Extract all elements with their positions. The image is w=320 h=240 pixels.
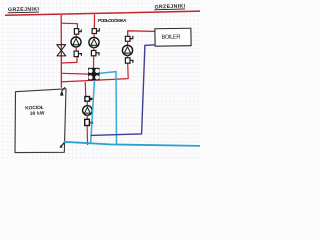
wire: main red supply line (top) bbox=[5, 11, 200, 15]
boiler box U1 bbox=[155, 28, 191, 46]
label GRZEJNIKI (right) bbox=[154, 3, 185, 10]
pump P1: circulation pump bbox=[71, 37, 81, 47]
pump P2: circulation pump bbox=[89, 37, 99, 47]
kociol pump column: ball valve bottom (square with knob) bbox=[85, 119, 94, 125]
kociol pump column: wire down to return bbox=[86, 126, 89, 145]
svg-text:PODŁOGÓWKA: PODŁOGÓWKA bbox=[98, 16, 127, 23]
node: supply connection tick at kociol top-right corner bbox=[60, 90, 64, 96]
pump column 2: ball valve bottom bbox=[91, 51, 99, 56]
pump P4: kociol circulation pump bbox=[83, 106, 93, 116]
wire: cyan from 4-way valve bottom port down bbox=[91, 80, 95, 143]
boiler pump column: wire bbox=[127, 41, 129, 45]
kociol pump column: wire bbox=[86, 115, 88, 119]
wire: branch to 4-way valve left port bbox=[61, 72, 88, 75]
label GRZEJNIKI (left) bbox=[8, 7, 40, 14]
pump P3: boiler circulation pump bbox=[122, 45, 132, 55]
wire: pump column 2 to 4-way valve bbox=[93, 56, 95, 69]
kociol box (KOCIOL 30 kW) bbox=[15, 89, 66, 153]
pump column 1: ball valve top bbox=[74, 29, 81, 35]
svg-text:BOILER: BOILER bbox=[161, 34, 180, 40]
node: return connection tick at kociol right edge bbox=[60, 142, 65, 147]
valve MV1: 4-way mixing valve (maltese cross) bbox=[88, 68, 99, 81]
wire: pump column 2 drop from supply bbox=[93, 14, 95, 28]
pump column 2: ball valve top bbox=[92, 28, 99, 33]
pump column 1: ball valve bottom bbox=[74, 51, 81, 57]
wire: cyan kociol return (bottom long line) bbox=[64, 142, 200, 146]
kociol pump column: wire from return header down bbox=[84, 82, 87, 96]
svg-text:30 kW: 30 kW bbox=[30, 110, 45, 117]
boiler pump column: wire corner + feed to boiler box bbox=[128, 31, 156, 37]
pump column 2: wire bbox=[93, 34, 95, 38]
pump column 1: wire bbox=[75, 47, 77, 51]
svg-text:KOCIOŁ: KOCIOŁ bbox=[25, 105, 44, 112]
boiler pump column: ball valve top bbox=[125, 36, 132, 41]
boiler pump column: wire bbox=[127, 55, 129, 57]
wire: cyan from 4-way valve right port to drop bbox=[99, 72, 116, 144]
wire: lower red return header to boiler pump column bbox=[61, 64, 128, 82]
valve V1: gate valve (bowtie) on left drop bbox=[57, 45, 66, 56]
wire: branch to pump column 1 top bbox=[61, 23, 77, 29]
wire: navy boiler return bbox=[91, 45, 155, 136]
kociol pump column: ball valve top (square with knob) bbox=[85, 97, 93, 102]
pump column 1: wire bbox=[75, 34, 77, 37]
kociol pump column: wire bbox=[86, 101, 88, 106]
wire: left red drop from supply to kociol bbox=[60, 15, 62, 88]
boiler pump column: ball valve bottom bbox=[125, 58, 132, 63]
wire: branch from pump column 1 bottom bbox=[61, 57, 77, 63]
pump column 2: wire bbox=[93, 47, 95, 50]
